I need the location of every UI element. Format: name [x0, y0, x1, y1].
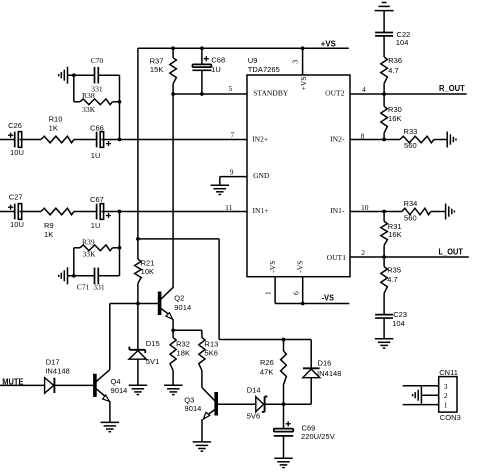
svg-text:18K: 18K	[177, 349, 191, 358]
svg-text:R_OUT: R_OUT	[439, 84, 465, 93]
svg-text:D17: D17	[46, 357, 60, 366]
svg-text:R33: R33	[404, 127, 418, 136]
svg-text:R13: R13	[205, 339, 219, 348]
svg-text:1K: 1K	[49, 124, 58, 133]
svg-text:1: 1	[444, 400, 448, 409]
svg-text:+VS: +VS	[321, 40, 337, 49]
svg-text:STANDBY: STANDBY	[253, 89, 289, 98]
svg-text:3: 3	[290, 60, 299, 64]
svg-text:331: 331	[93, 283, 105, 292]
svg-text:C67: C67	[90, 195, 104, 204]
svg-text:47K: 47K	[260, 368, 274, 377]
svg-text:5V1: 5V1	[146, 357, 160, 366]
svg-text:C23: C23	[393, 310, 407, 319]
svg-text:6: 6	[292, 291, 301, 295]
svg-text:OUT1: OUT1	[327, 253, 347, 262]
svg-text:IN4148: IN4148	[317, 369, 342, 378]
svg-text:OUT2: OUT2	[325, 89, 345, 98]
svg-text:R32: R32	[176, 340, 190, 349]
svg-text:10: 10	[361, 203, 369, 212]
svg-text:5K6: 5K6	[205, 349, 219, 358]
svg-text:1: 1	[263, 291, 272, 295]
svg-text:+VS: +VS	[299, 76, 308, 90]
svg-text:5V6: 5V6	[247, 412, 261, 421]
svg-text:10K: 10K	[141, 267, 155, 276]
svg-text:Q2: Q2	[174, 293, 184, 302]
svg-text:7: 7	[230, 130, 234, 139]
svg-text:10U: 10U	[10, 220, 24, 229]
svg-text:8: 8	[361, 132, 365, 141]
svg-text:9: 9	[230, 168, 234, 177]
svg-text:Q4: Q4	[111, 377, 121, 386]
svg-text:1K: 1K	[44, 230, 53, 239]
svg-text:CON3: CON3	[440, 413, 461, 422]
svg-text:11: 11	[225, 203, 233, 212]
svg-text:3: 3	[444, 382, 448, 391]
svg-text:2: 2	[361, 248, 365, 257]
svg-text:R39: R39	[82, 238, 95, 247]
svg-text:IN1+: IN1+	[253, 206, 269, 215]
svg-text:9014: 9014	[185, 404, 202, 413]
svg-text:L_OUT: L_OUT	[439, 247, 464, 256]
svg-text:560: 560	[404, 214, 417, 223]
svg-text:104: 104	[396, 38, 409, 47]
svg-text:220U/25V: 220U/25V	[301, 432, 335, 441]
svg-text:5: 5	[229, 84, 233, 93]
svg-text:C26: C26	[8, 121, 22, 130]
svg-text:C70: C70	[91, 56, 104, 65]
svg-text:IN2+: IN2+	[252, 134, 268, 143]
svg-text:1U: 1U	[91, 221, 101, 230]
svg-text:C66: C66	[90, 124, 104, 133]
svg-text:33K: 33K	[82, 105, 96, 114]
svg-text:IN4148: IN4148	[45, 366, 70, 375]
svg-text:-VS: -VS	[268, 261, 277, 273]
svg-text:R34: R34	[404, 199, 418, 208]
svg-text:R10: R10	[49, 114, 63, 123]
svg-text:104: 104	[392, 319, 405, 328]
svg-text:D16: D16	[318, 359, 332, 368]
svg-text:R21: R21	[141, 259, 155, 268]
svg-text:16K: 16K	[388, 114, 402, 123]
svg-text:R35: R35	[387, 266, 401, 275]
svg-text:R38: R38	[82, 91, 95, 100]
svg-text:-VS: -VS	[322, 294, 335, 303]
svg-text:TDA7265: TDA7265	[248, 65, 280, 74]
svg-text:C71: C71	[77, 283, 90, 292]
svg-text:-VS: -VS	[295, 261, 304, 273]
svg-text:CN11: CN11	[439, 368, 458, 377]
svg-text:10U: 10U	[10, 148, 24, 157]
svg-text:IN1-: IN1-	[330, 206, 345, 215]
svg-text:R30: R30	[388, 105, 402, 114]
svg-text:C27: C27	[9, 193, 23, 202]
svg-text:4.7: 4.7	[387, 275, 398, 284]
svg-text:2: 2	[444, 391, 448, 400]
svg-text:1U: 1U	[91, 151, 101, 160]
svg-text:4: 4	[362, 85, 366, 94]
svg-text:9014: 9014	[174, 303, 191, 312]
svg-text:1U: 1U	[211, 65, 221, 74]
svg-text:D15: D15	[146, 339, 160, 348]
svg-text:IN2-: IN2-	[330, 134, 345, 143]
svg-text:D14: D14	[247, 386, 261, 395]
svg-text:MUTE: MUTE	[2, 378, 24, 387]
svg-text:R36: R36	[388, 56, 402, 65]
svg-text:560: 560	[404, 141, 417, 150]
svg-text:R9: R9	[44, 221, 54, 230]
svg-text:16K: 16K	[388, 230, 402, 239]
svg-text:C69: C69	[302, 423, 316, 432]
svg-text:9014: 9014	[111, 386, 128, 395]
svg-text:33K: 33K	[83, 250, 97, 259]
svg-text:GND: GND	[253, 171, 270, 180]
svg-text:15K: 15K	[150, 65, 164, 74]
svg-text:U9: U9	[248, 56, 258, 65]
svg-text:C68: C68	[211, 56, 225, 65]
svg-text:R26: R26	[260, 358, 274, 367]
svg-text:4.7: 4.7	[388, 66, 399, 75]
